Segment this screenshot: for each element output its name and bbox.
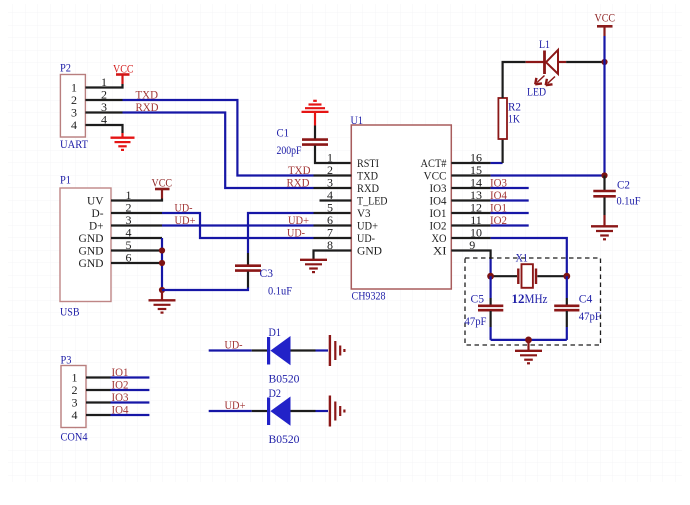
svg-text:VCC: VCC [152, 176, 173, 190]
junction at crystal rail [525, 337, 532, 344]
svg-text:CON4: CON4 [61, 430, 88, 444]
P2 pin numbers inside [71, 81, 77, 133]
wire P1 pin1 to VCC [111, 199, 162, 201]
U1 pin11 stub (IO2) [451, 224, 490, 226]
wire P2 pin3 stub [85, 111, 122, 113]
svg-text:C3: C3 [260, 266, 274, 280]
svg-text:VCC: VCC [595, 11, 616, 25]
capacitor C1 [277, 126, 329, 158]
svg-text:C1: C1 [277, 126, 290, 140]
P3 pin2 stub [86, 389, 111, 391]
P3 pin1 stub [86, 376, 111, 378]
svg-text:C4: C4 [579, 292, 593, 306]
U1 pin15 stub [451, 174, 490, 176]
ground (C2, dark red) [591, 215, 618, 239]
svg-text:LED: LED [527, 85, 546, 99]
LED L1 [526, 37, 566, 99]
connector P3 [61, 353, 88, 444]
wire LED to VCC rail [566, 61, 604, 63]
capacitor C2 [593, 176, 640, 216]
svg-text:USB: USB [60, 305, 80, 319]
power VCC (top right) [595, 11, 616, 37]
crystal X1 [491, 251, 567, 307]
svg-text:XI: XI [433, 244, 447, 258]
svg-text:GND: GND [79, 256, 104, 270]
wire P2 pin1 to VCC [85, 84, 122, 88]
U1 pin3 stub [314, 187, 352, 189]
svg-text:200pF: 200pF [277, 143, 302, 157]
svg-text:0.1uF: 0.1uF [617, 194, 641, 208]
wire TXD net [123, 100, 314, 176]
svg-text:4: 4 [71, 118, 77, 132]
svg-text:UD+: UD+ [225, 398, 246, 412]
svg-text:U1: U1 [351, 113, 364, 127]
junction at XI/crystal/C5 [487, 273, 494, 280]
wire U1 pin16 (ACT#) to R2 [451, 162, 490, 164]
U1 pin10 stub (XO) [451, 237, 490, 239]
ground (P1, dark red) [149, 290, 176, 313]
wire V3 net from U1 pin5 to C3 [248, 213, 314, 253]
U1 left pin numbers [327, 150, 333, 252]
wire IO3 (at P3) [111, 401, 150, 403]
svg-text:C5: C5 [471, 292, 485, 306]
wire IO4 [491, 199, 529, 201]
svg-text:UD-: UD- [225, 338, 243, 352]
U1 pin7 stub [314, 237, 352, 239]
svg-text:12: 12 [512, 292, 525, 306]
svg-text:1K: 1K [508, 112, 520, 126]
wire P1 pin2 stub [111, 212, 162, 214]
wire IO2 (at P3) [111, 389, 150, 391]
wire UD- net [162, 213, 314, 238]
U1 pin12 stub (IO1) [451, 212, 490, 214]
svg-text:0.1uF: 0.1uF [268, 284, 292, 298]
svg-text:47pF: 47pF [579, 309, 601, 323]
wire R2 to LED [503, 62, 526, 98]
diode D1 [209, 325, 328, 386]
wire C3 rail from P1 ground node [162, 287, 248, 290]
svg-text:4: 4 [72, 408, 78, 422]
ground (D1 side, dark red) [330, 335, 345, 366]
diode D2 [209, 386, 328, 446]
wire P1 pin4 stub [111, 237, 162, 239]
P1 pin numbers above stubs [126, 188, 132, 264]
svg-text:IO2: IO2 [490, 213, 507, 227]
U1 pin6 stub [314, 224, 352, 226]
wire crystal ground rail [491, 339, 567, 341]
U1 pin2 stub [314, 174, 352, 176]
wire IO1 [491, 212, 529, 214]
svg-text:C2: C2 [617, 178, 630, 192]
capacitor C5 [465, 276, 504, 340]
ground (U1 pin8, dark red) [300, 260, 327, 272]
power VCC at P2 [113, 62, 134, 85]
U1 pin5 stub [314, 212, 352, 214]
wire IO1 (at P3) [111, 376, 150, 378]
svg-text:P1: P1 [60, 173, 71, 187]
P1 pin names inside [79, 194, 104, 271]
wire XI to crystal [490, 259, 492, 273]
wire C1 to U1 pin1 [315, 146, 351, 164]
power flag above C1 (bright red) [302, 101, 329, 126]
svg-text:L1: L1 [539, 37, 550, 51]
wire P2 pin4 to ground [85, 125, 122, 133]
P3 pin numbers inside [72, 371, 78, 423]
P3 pin3 stub [86, 401, 111, 403]
junction at LED/VCC [601, 59, 607, 65]
junction at P1 ground node [159, 287, 165, 293]
wire IO3 [491, 187, 529, 189]
svg-text:D1: D1 [269, 325, 282, 339]
svg-text:MHz: MHz [525, 292, 548, 306]
svg-text:47pF: 47pF [465, 314, 487, 328]
power VCC at P1 [152, 176, 173, 199]
wire U1 pin15 (VCC) [491, 174, 605, 176]
wire IO4 (at P3) [111, 414, 150, 416]
svg-text:B0520: B0520 [269, 372, 300, 386]
capacitor C4 [554, 276, 601, 340]
P2 pin numbers above stubs [101, 75, 107, 127]
wire VCC rail vertical [603, 36, 605, 176]
IC U1 CH9328 [351, 113, 452, 303]
svg-text:CH9328: CH9328 [352, 289, 386, 303]
P3 pin4 stub [86, 414, 111, 416]
junction at VCC/C2 [601, 172, 607, 178]
resistor R2 [498, 98, 521, 139]
wire P2 pin2 stub [85, 99, 122, 101]
junction at P1 pin6 [159, 260, 165, 266]
svg-text:IO4: IO4 [112, 402, 129, 416]
U1 right pin numbers [469, 150, 482, 252]
U1 right pin names [421, 156, 447, 258]
wire RXD net [123, 113, 314, 189]
wire P1 pin6 stub [111, 262, 162, 264]
wire P1 ground bus [161, 238, 163, 290]
wire P1 pin3 stub [111, 224, 162, 226]
U1 pin13 stub (IO4) [451, 199, 490, 201]
U1 pin9 stub (XI) [451, 251, 490, 260]
svg-text:B0520: B0520 [269, 432, 300, 446]
svg-text:P2: P2 [60, 61, 71, 75]
U1 left pin names [357, 156, 388, 258]
svg-text:RXD: RXD [287, 175, 310, 189]
svg-text:D2: D2 [269, 386, 282, 400]
ground (crystal, dark red) [515, 340, 542, 363]
wire UD+ net [162, 224, 314, 226]
ground (D2 side, dark red) [330, 396, 345, 427]
U1 pin14 stub (IO3) [451, 187, 490, 189]
svg-text:X1: X1 [516, 251, 529, 265]
junction at XO/crystal/C4 [563, 273, 570, 280]
wire XO to crystal [491, 238, 567, 273]
wire U1 pin8 to ground [314, 251, 352, 260]
junction at P1 pin5 [159, 247, 165, 253]
connector P1 [60, 173, 111, 319]
svg-text:UD-: UD- [287, 225, 305, 239]
connector P2 [60, 61, 89, 152]
ground (P2, bright red) [111, 133, 135, 150]
svg-text:GND: GND [357, 244, 382, 258]
wire IO2 [491, 224, 529, 226]
svg-text:P3: P3 [61, 353, 72, 367]
wire power flag to C1 [314, 126, 316, 139]
U1 pin4 stub (T_LED unconnected) [320, 199, 352, 201]
crystal dashed enclosure [465, 258, 601, 345]
svg-text:UART: UART [60, 137, 89, 151]
wire P1 pin5 stub [111, 249, 162, 251]
svg-text:VCC: VCC [113, 62, 134, 76]
capacitor C3 [235, 253, 292, 298]
